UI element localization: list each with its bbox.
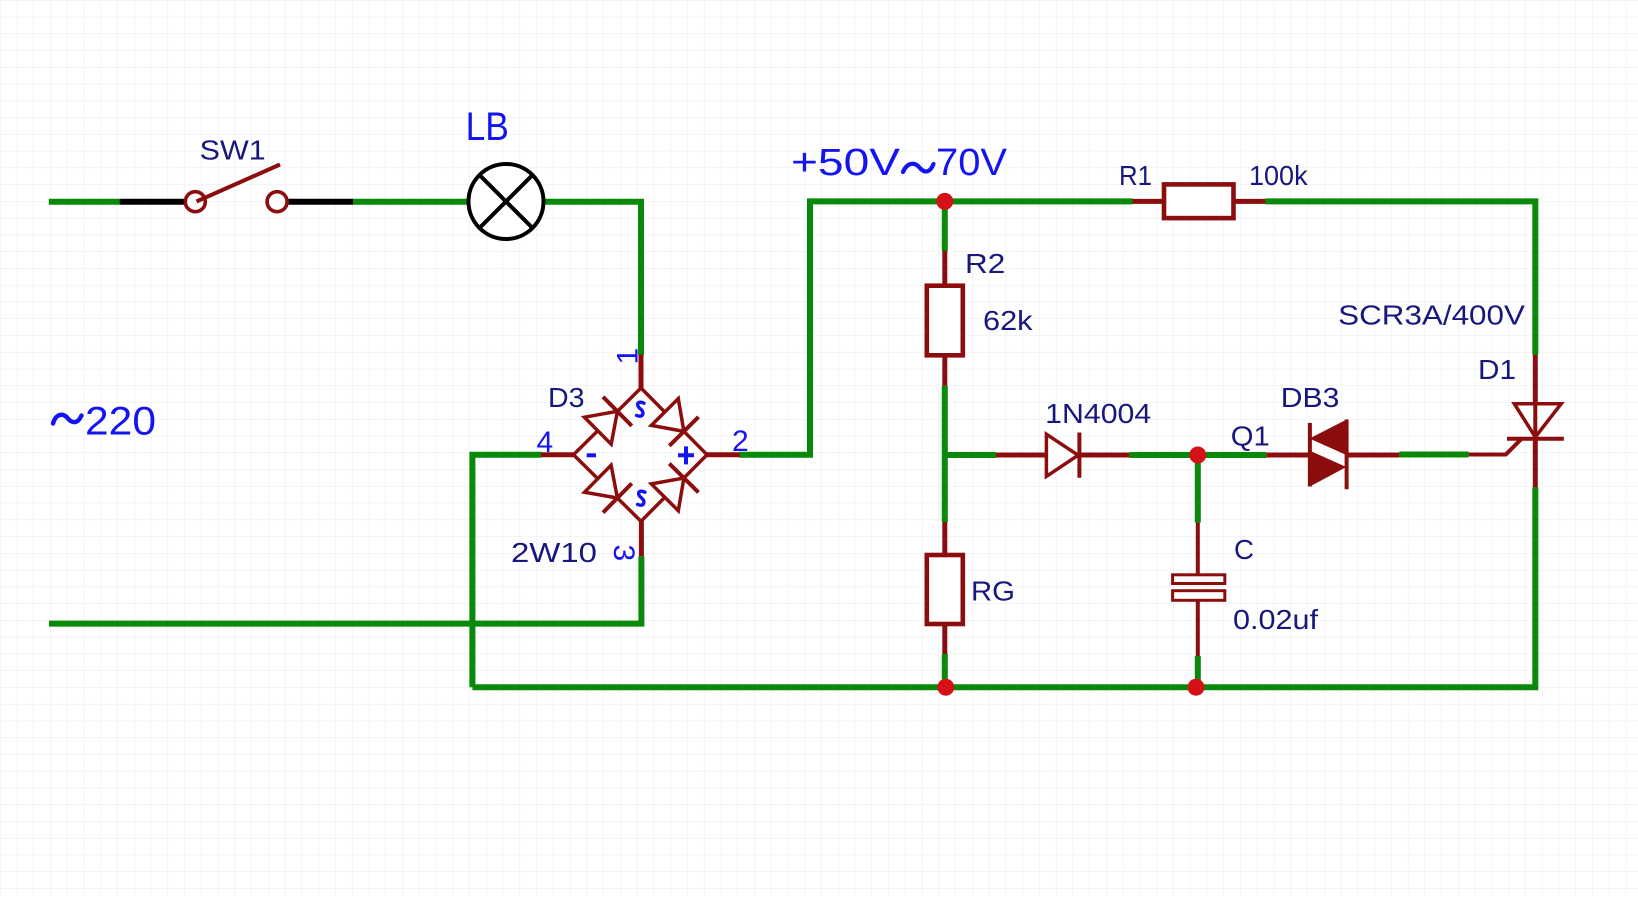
wire 1N4004 cathode to gate node <box>1129 452 1266 458</box>
bridge pin 3 stub <box>639 521 644 556</box>
wire top rail right of R1 to SCR anode <box>1265 201 1535 354</box>
bridge AC mark bottom <box>638 491 645 505</box>
diac Q1 lead left <box>1266 453 1310 458</box>
wire LB to bridge pin1 <box>544 202 641 355</box>
thyristor D1 anode lead <box>1533 355 1538 404</box>
wire gate node down to capacitor C <box>1195 455 1201 523</box>
diac Q1 lead right <box>1347 453 1400 458</box>
bridge plus mark <box>678 446 694 464</box>
resistor R2 lead top <box>942 251 947 286</box>
thyristor D1 vertical through triangle <box>1533 404 1537 437</box>
junction node ground RG <box>937 679 954 696</box>
resistor R1 lead right <box>1234 199 1266 204</box>
svg-text:SCR3A/400V: SCR3A/400V <box>1338 300 1525 331</box>
bridge pin 4 stub <box>541 452 574 457</box>
wire AC neutral bottom <box>49 556 641 623</box>
wire AC live left segment <box>49 199 120 205</box>
bridge pin 2 stub <box>707 452 740 457</box>
wire bridge pin2 to +50V node and top rail <box>739 201 1133 454</box>
svg-text:2: 2 <box>732 425 749 458</box>
capacitor C bottom plate <box>1173 591 1225 601</box>
bridge D3 diode top-right <box>651 399 684 432</box>
svg-text:4: 4 <box>537 426 554 459</box>
junction node +50V <box>936 193 953 210</box>
diode 1N4004 cathode bar <box>1077 433 1081 478</box>
bridge D3 diode bottom-left <box>585 465 618 498</box>
switch SW1 terminal circle left <box>185 192 205 212</box>
resistor R2 lead bottom <box>942 355 947 386</box>
diode 1N4004 triangle <box>1046 434 1078 476</box>
diode 1N4004 anode lead <box>996 453 1046 458</box>
bridge rectifier D3 diamond <box>574 388 708 521</box>
net label ~220 tilde <box>53 415 82 424</box>
svg-text:D1: D1 <box>1478 354 1516 385</box>
svg-text:SW1: SW1 <box>200 135 266 166</box>
capacitor C top lead <box>1196 523 1200 575</box>
capacitor C top plate <box>1173 575 1225 584</box>
resistor RG lead bottom <box>942 624 947 654</box>
svg-text:D3: D3 <box>548 382 585 413</box>
diac Q1 right bar <box>1345 420 1349 490</box>
svg-text:3: 3 <box>607 545 640 562</box>
svg-text:220: 220 <box>85 400 156 444</box>
net label +50V~70V tilde <box>903 164 934 172</box>
junction node gate <box>1189 447 1206 464</box>
wire bridge pin4 net <box>472 455 541 688</box>
svg-text:2W10: 2W10 <box>511 537 597 568</box>
lamp LB cross <box>480 175 532 227</box>
svg-text:RG: RG <box>971 576 1015 607</box>
resistor RG body <box>927 555 963 624</box>
wire SW1 lead right (black) <box>289 199 354 205</box>
svg-text:R1: R1 <box>1119 160 1152 191</box>
resistor R2 body <box>927 286 963 356</box>
thyristor D1 cathode lead <box>1533 437 1538 487</box>
bridge pin 1 stub <box>639 355 644 389</box>
svg-text:70V: 70V <box>936 142 1008 184</box>
svg-text:DB3: DB3 <box>1281 382 1340 413</box>
diode 1N4004 cathode lead <box>1079 453 1129 458</box>
thyristor D1 triangle <box>1514 404 1561 437</box>
svg-text:62k: 62k <box>983 305 1034 336</box>
bridge minus mark <box>587 453 596 457</box>
wire SCR cathode to bottom rail <box>472 487 1535 687</box>
junction node ground C <box>1188 679 1205 696</box>
wire +50V node down to R2 <box>942 201 948 251</box>
svg-text:Q1: Q1 <box>1231 421 1270 452</box>
bridge D3 diode top-left <box>584 411 617 444</box>
thyristor D1 gate lead <box>1469 439 1521 454</box>
diac Q1 upper triangle <box>1311 420 1347 455</box>
wire RG bottom to ground rail <box>942 654 948 687</box>
svg-text:100k: 100k <box>1249 160 1309 191</box>
resistor R1 body <box>1164 184 1234 218</box>
bridge D3 diode bottom-right <box>651 478 684 511</box>
svg-text:+50V: +50V <box>791 142 901 184</box>
resistor RG lead top <box>942 522 947 555</box>
svg-text:C: C <box>1234 534 1254 565</box>
wire capacitor C to ground rail <box>1195 656 1201 687</box>
switch SW1 terminal circle right <box>267 192 287 212</box>
wire SW1 lead left (black) <box>120 199 186 205</box>
wire DB3 to SCR gate <box>1399 452 1468 458</box>
svg-text:LB: LB <box>466 105 509 149</box>
wire SW1 to LB <box>353 199 468 205</box>
resistor R1 lead left <box>1133 199 1164 204</box>
diac Q1 lower triangle <box>1310 451 1345 486</box>
thyristor D1 cathode bar <box>1507 437 1564 441</box>
diac Q1 left bar <box>1308 423 1312 487</box>
svg-text:1: 1 <box>612 348 645 365</box>
capacitor C bottom lead <box>1196 600 1200 656</box>
svg-text:0.02uf: 0.02uf <box>1233 604 1318 635</box>
svg-text:1N4004: 1N4004 <box>1045 398 1151 429</box>
lamp LB circle <box>469 164 544 239</box>
svg-text:R2: R2 <box>965 248 1005 279</box>
bridge AC mark top <box>637 402 644 416</box>
wire branch node to 1N4004 anode <box>945 452 996 458</box>
switch SW1 blade <box>197 165 281 202</box>
wire R2 bottom to RG top node <box>942 386 948 522</box>
